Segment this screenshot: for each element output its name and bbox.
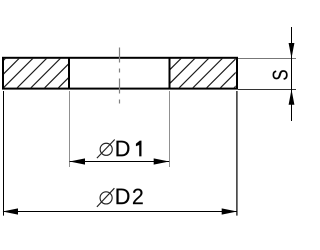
- extension line D1 left: [69, 91, 71, 167]
- extension line D1 right: [169, 91, 171, 167]
- arrow D1 left: [70, 158, 86, 164]
- hatch right block: [151, 58, 265, 89]
- extension line D2 left: [3, 91, 5, 216]
- arrow S bottom: [289, 89, 295, 104]
- diameter symbol D1: [97, 140, 115, 159]
- arrow D2 left: [3, 208, 19, 214]
- dimension D1 line: [70, 161, 170, 163]
- hatch left block: [0, 58, 89, 89]
- extension line S top: [238, 58, 296, 60]
- label S: [273, 70, 288, 80]
- arrow S top: [289, 43, 295, 58]
- label D1: [117, 141, 130, 157]
- extension line D2 right: [236, 91, 238, 216]
- diameter symbol D2: [97, 188, 115, 207]
- centerline: [119, 48, 121, 104]
- dimension D2 line: [3, 211, 237, 213]
- washer outline: [3, 58, 237, 89]
- dimension S line: [291, 27, 293, 121]
- extension line S bottom: [238, 89, 296, 91]
- hole left edge: [68, 58, 70, 89]
- arrow D1 right: [154, 158, 170, 164]
- hole right edge: [169, 58, 171, 89]
- arrow D2 right: [222, 208, 238, 214]
- label D2: [117, 189, 130, 205]
